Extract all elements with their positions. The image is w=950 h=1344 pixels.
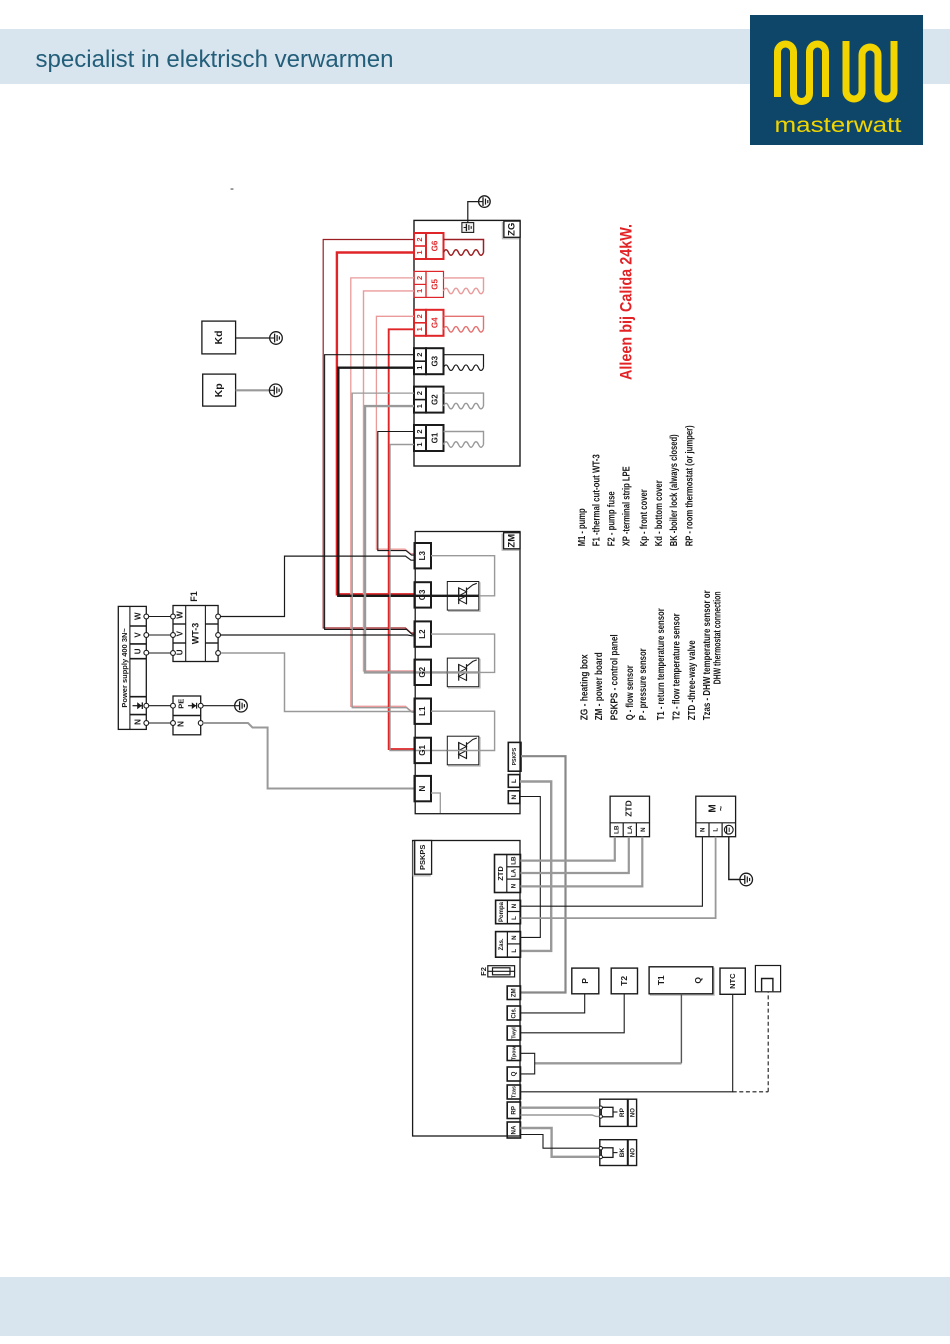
svg-text:ZM - power board: ZM - power board: [594, 652, 605, 720]
L3 loop to triac T1: [431, 556, 495, 596]
svg-text:~: ~: [716, 806, 726, 811]
ZM connector PSKPS: [508, 742, 521, 771]
wire Kd: [236, 337, 270, 339]
G2 feed through triac: [447, 671, 479, 673]
svg-text:Tzas: Tzas: [511, 1086, 517, 1098]
ZG earth wire: [468, 202, 479, 223]
svg-text:U: U: [175, 649, 184, 655]
heater terminal block G6: [414, 233, 426, 259]
svg-text:1: 1: [415, 289, 424, 293]
jumper box: [755, 966, 780, 992]
earth symbol PE: [203, 705, 235, 707]
svg-text:Power supply 400 3N~: Power supply 400 3N~: [120, 628, 129, 708]
wire pump N: [521, 837, 703, 907]
ZM terminal L2: [415, 621, 432, 646]
wire WT-3 V to L2: [221, 634, 415, 637]
svg-text:Zas.: Zas.: [499, 938, 505, 950]
wire G3 pin1 to G3 terminal: [338, 368, 447, 596]
connector RP (panel): [507, 1102, 520, 1119]
svg-text:NA: NA: [511, 1125, 518, 1134]
svg-text:ZTD: ZTD: [496, 866, 505, 881]
svg-text:L2: L2: [418, 629, 427, 639]
svg-text:T1 - return temperature sensor: T1 - return temperature sensor: [656, 608, 667, 720]
wires NA to BK: [521, 1128, 600, 1157]
svg-text:V: V: [134, 632, 143, 638]
heater terminal block G4: [414, 310, 426, 336]
terminal strip PE/N: [173, 696, 201, 735]
svg-text:2: 2: [415, 353, 424, 357]
svg-text:F2 - pump fuse: F2 - pump fuse: [607, 491, 618, 546]
svg-text:ZG: ZG: [506, 223, 517, 236]
L2 loop to triac T2: [431, 634, 495, 672]
wire WT-3 W to L3: [221, 556, 415, 616]
svg-text:T1: T1: [656, 975, 666, 985]
svg-text:ZG - heating box: ZG - heating box: [580, 654, 591, 720]
svg-text:ZM: ZM: [511, 988, 518, 997]
svg-text:G3: G3: [418, 589, 427, 600]
svg-text:PSKPS: PSKPS: [418, 845, 427, 870]
thermal cut-out WT-3 (F1): [173, 606, 218, 662]
svg-text:BK: BK: [619, 1148, 626, 1158]
svg-text:L: L: [713, 828, 720, 832]
terminal point: [144, 633, 149, 638]
svg-text:Q: Q: [511, 1071, 518, 1076]
ZM terminal G2: [415, 660, 432, 685]
logo M wave: [778, 44, 826, 102]
wire NTC to Tzas: [521, 994, 733, 1092]
room thermostat RP: [600, 1099, 637, 1126]
dashed alternative link: [733, 1091, 769, 1093]
wire ZTD LA: [521, 837, 629, 873]
wire T2 to Twyl: [521, 994, 625, 1033]
heater terminal block G5: [414, 271, 426, 297]
svg-text:2: 2: [415, 314, 424, 318]
svg-text:L3: L3: [418, 550, 427, 560]
svg-text:G4: G4: [430, 317, 439, 328]
power supply box XP: [118, 606, 146, 729]
cover switch Kd: [202, 321, 236, 354]
svg-text:F1 -thermal cut-out WT-3: F1 -thermal cut-out WT-3: [592, 454, 603, 546]
svg-text:W: W: [134, 612, 143, 620]
svg-text:RP - room thermostat (or jumpe: RP - room thermostat (or jumper): [685, 425, 696, 546]
heater terminal block G3: [414, 348, 426, 374]
svg-text:Kd: Kd: [213, 331, 225, 345]
wire G2 pin2 to L1: [352, 393, 414, 712]
svg-text:N: N: [418, 785, 427, 791]
connector Ciś. (panel): [507, 1006, 520, 1020]
svg-text:G5: G5: [430, 279, 439, 290]
svg-text:BK -boiler lock (always closed: BK -boiler lock (always closed): [669, 434, 680, 546]
svg-text:Q: Q: [693, 977, 703, 984]
PSKPS label: [413, 842, 430, 876]
wire G1 pin1 to G1 terminal: [390, 445, 447, 751]
svg-text:1: 1: [415, 366, 424, 370]
ZG earth terminal: [462, 223, 474, 233]
svg-text:NO: NO: [631, 1148, 637, 1157]
svg-text:LA: LA: [511, 868, 518, 877]
terminal point: [144, 614, 149, 619]
connector Twyl (panel): [507, 1026, 520, 1040]
svg-text:2: 2: [415, 276, 424, 280]
ZM terminal L (to control): [508, 775, 520, 788]
wire Kp: [236, 389, 270, 391]
wire G6 pin2 to L2: [323, 240, 414, 634]
wire power N to strip: [149, 722, 171, 724]
DHW sensor NTC: [720, 968, 745, 994]
ZM terminal G3: [415, 582, 432, 607]
wire G6 pin1 to G3 terminal: [337, 253, 414, 595]
svg-text:PE: PE: [177, 699, 186, 709]
wire power PE to strip: [149, 705, 171, 707]
pump PE glyph: [724, 825, 733, 834]
triac T2: [449, 659, 481, 688]
svg-text:2: 2: [415, 429, 424, 433]
wire P to Cis: [521, 994, 585, 1013]
svg-text:N: N: [640, 827, 647, 832]
svg-text:DHW thermostat connection: DHW thermostat connection: [712, 591, 723, 684]
svg-text:N: N: [511, 883, 518, 888]
heating box ZG: [414, 220, 520, 466]
svg-text:N: N: [699, 827, 706, 832]
G1 feed through triac: [447, 750, 479, 752]
terminal point: [144, 650, 149, 655]
svg-text:1: 1: [415, 250, 424, 254]
svg-text:PSKPS: PSKPS: [512, 747, 518, 765]
connector Zas (panel): [496, 932, 521, 958]
svg-text:L: L: [511, 779, 518, 783]
three-way valve ZTD: [610, 796, 649, 837]
wire WT-3 U to L1: [221, 653, 415, 712]
svg-text:WT-3: WT-3: [191, 623, 201, 645]
wire ZM L to Zas L: [520, 782, 551, 951]
connector ZM (panel): [507, 986, 520, 1000]
heater element G2 loop: [444, 393, 484, 406]
L1 loop to triac T3: [431, 711, 495, 750]
wire G5 pin1 to G2 terminal: [364, 291, 415, 671]
svg-text:G2: G2: [430, 394, 439, 405]
svg-text:L1: L1: [418, 706, 427, 716]
svg-text:NO: NO: [631, 1108, 637, 1117]
svg-text:Kp - front cover: Kp - front cover: [639, 489, 650, 546]
ZM terminal L3: [415, 543, 432, 568]
svg-text:V: V: [175, 630, 184, 636]
ZM N stub: [431, 793, 440, 813]
heater element G1 loop: [444, 432, 484, 445]
svg-text:Ciś.: Ciś.: [512, 1007, 518, 1018]
svg-text:1: 1: [415, 327, 424, 331]
svg-text:T2: T2: [619, 976, 629, 986]
triac T3: [449, 738, 481, 767]
svg-text:U: U: [134, 648, 143, 654]
wire T1/Q cable: [680, 994, 682, 1064]
svg-text:Alleen bij Calida 24kW.: Alleen bij Calida 24kW.: [618, 224, 636, 380]
pressure sensor P: [572, 968, 599, 994]
wire pump PE to earth: [729, 837, 740, 880]
wire G4 pin1 to G1 terminal: [389, 329, 414, 749]
wire ZM N to Zas N: [520, 797, 541, 938]
svg-text:L: L: [511, 916, 518, 920]
ZM terminal G1: [415, 738, 432, 763]
heater element G4 loop: [444, 316, 484, 329]
svg-text:T2 - flow temperature sensor: T2 - flow temperature sensor: [672, 613, 683, 720]
ZG earth symbol: [479, 196, 491, 208]
svg-text:1: 1: [415, 404, 424, 408]
connector NA (panel): [507, 1122, 520, 1138]
cover switch Kp: [203, 374, 236, 406]
wires RP: [521, 1106, 600, 1108]
wire ZM-PSKPS ribbon: [521, 756, 566, 992]
power board ZM: [415, 532, 520, 814]
svg-text:N: N: [511, 903, 518, 908]
svg-text:XP -terminal strip LPE: XP -terminal strip LPE: [622, 466, 633, 546]
wire pump L: [521, 837, 716, 918]
svg-text:PSKPS - control panel: PSKPS - control panel: [610, 634, 621, 720]
PE arrow in power box: [133, 705, 143, 707]
earth symbol pump: [740, 873, 753, 886]
ZM label: [502, 534, 518, 550]
svg-text:G1: G1: [430, 432, 439, 443]
heater terminal block G1: [414, 425, 426, 451]
svg-text:G3: G3: [430, 355, 439, 366]
terminal point: [144, 721, 149, 726]
svg-text:Kd - bottom cover: Kd - bottom cover: [654, 480, 665, 546]
svg-text:LB: LB: [614, 825, 621, 834]
connector Q (panel): [507, 1067, 520, 1081]
svg-text:Tpow: Tpow: [511, 1045, 517, 1060]
svg-text:N: N: [177, 721, 186, 727]
wire N to ZM: [203, 723, 414, 789]
ZM terminal N (to control): [508, 791, 520, 804]
wire ZTD N: [521, 837, 643, 887]
ZG label: [502, 223, 518, 239]
wire G1 pin2 to L3: [378, 432, 414, 556]
earth symbol Kp: [269, 384, 282, 397]
svg-text:RP: RP: [511, 1106, 518, 1115]
terminal point: [144, 703, 149, 708]
svg-text:RP: RP: [619, 1107, 626, 1117]
connector Pompa (panel): [496, 900, 521, 923]
svg-text:G6: G6: [430, 240, 439, 251]
wires power to WT-3: [149, 616, 171, 618]
svg-text:N: N: [511, 935, 518, 940]
svg-text:Kp: Kp: [213, 383, 225, 397]
bracket Tpow/Q: [521, 1053, 535, 1074]
svg-text:G2: G2: [418, 666, 427, 677]
svg-text:ZM: ZM: [506, 534, 517, 548]
connector ZTD (panel): [495, 855, 521, 893]
boiler lock BK: [600, 1140, 637, 1166]
svg-text:P: P: [580, 978, 590, 984]
connector Tpow (panel): [507, 1046, 520, 1061]
sensors T1 and Q: [650, 968, 714, 995]
heater element G3 loop: [444, 355, 484, 368]
svg-text:LB: LB: [511, 856, 518, 865]
ZM terminal L1: [415, 699, 432, 724]
svg-text:Twyl: Twyl: [511, 1027, 517, 1039]
svg-text:NTC: NTC: [728, 973, 737, 989]
control panel PSKPS: [413, 841, 520, 1137]
svg-text:2: 2: [415, 237, 424, 241]
svg-text:F2: F2: [479, 967, 488, 976]
svg-text:-: -: [230, 181, 234, 195]
svg-text:LA: LA: [627, 825, 634, 834]
earth symbol Kd: [270, 332, 283, 345]
heater element G6 loop: [444, 240, 484, 253]
ZM terminal N: [415, 776, 432, 801]
wire G2 pin1 to G2 terminal: [365, 406, 447, 672]
svg-text:1: 1: [415, 442, 424, 446]
svg-text:G1: G1: [418, 745, 427, 756]
connector Tzas (panel): [507, 1085, 520, 1099]
wire G3 pin2 to L2: [325, 355, 414, 635]
wire G5 pin2 to L1: [351, 278, 414, 711]
logo W wave: [846, 41, 894, 99]
svg-text:Tzas - DHW temperature sensor: Tzas - DHW temperature sensor or: [702, 590, 713, 720]
wire G4 pin2 to L3: [376, 316, 414, 553]
svg-text:W: W: [175, 611, 184, 619]
header band: [0, 29, 950, 84]
pump M1: [696, 796, 736, 837]
heater terminal block G2: [414, 387, 426, 413]
flow temperature sensor T2: [611, 968, 637, 994]
svg-text:M1 - pump: M1 - pump: [577, 508, 588, 546]
svg-text:N: N: [134, 719, 143, 725]
svg-text:Pompa: Pompa: [499, 901, 505, 922]
svg-text:2: 2: [415, 391, 424, 395]
masterwatt logo: [750, 15, 923, 145]
bottom band: [0, 1277, 950, 1336]
header title: [0, 0, 500, 100]
triac T1: [449, 583, 481, 612]
svg-text:F1: F1: [189, 591, 199, 602]
svg-text:ZTD -three-way valve: ZTD -three-way valve: [687, 640, 698, 720]
svg-text:Q - flow sensor: Q - flow sensor: [625, 665, 636, 720]
svg-text:P - pressure sensor: P - pressure sensor: [638, 648, 649, 720]
wire ZTD LB: [521, 837, 615, 861]
heater element G5 loop: [444, 278, 484, 291]
svg-text:L: L: [511, 949, 518, 953]
svg-text:N: N: [511, 794, 518, 799]
svg-text:ZTD: ZTD: [623, 800, 633, 817]
G3 feed through triac: [447, 595, 479, 597]
